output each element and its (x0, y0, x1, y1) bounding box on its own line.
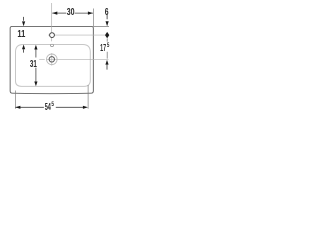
back edge extension line (right) (93, 25, 109, 27)
tap hole (50, 33, 55, 38)
dim 31: up arrow (34, 45, 37, 50)
dim 30: arrows (52, 12, 57, 15)
drain inner circle (49, 57, 54, 62)
diamond (shared arrowheads of dims 6 and 17.5) (105, 32, 109, 38)
washbasin outer outline (10, 26, 93, 93)
dim 11: tail + down arrow (23, 17, 25, 21)
dim 31: down arrow (34, 82, 37, 87)
dim 30: right extension (92, 9, 94, 27)
svg-text:17: 17 (100, 43, 106, 54)
dim 17.5: line segments (106, 38, 108, 41)
svg-text:30: 30 (67, 6, 75, 18)
tap hole horizontal centreline to diamond (48, 34, 105, 36)
dim 17.5: up arrow + tail (105, 60, 108, 65)
dim 6: tail, arrow, text (106, 15, 108, 19)
centre axis line through tap hole (51, 3, 53, 41)
overflow hole (50, 44, 53, 46)
dim 30: line (52, 12, 66, 14)
svg-text:5: 5 (107, 42, 110, 49)
dim 11: up arrow + tail (22, 45, 25, 50)
svg-text:6: 6 (105, 7, 109, 18)
inner bowl outline (16, 45, 91, 87)
drain outer circle (47, 54, 58, 65)
svg-text:54: 54 (45, 102, 51, 113)
drain centrelines (39, 58, 45, 60)
svg-text:5: 5 (51, 101, 54, 108)
dim 54.5: extensions (14, 91, 16, 109)
dim 54.5: line + arrows (16, 106, 44, 108)
svg-text:11: 11 (17, 29, 25, 40)
